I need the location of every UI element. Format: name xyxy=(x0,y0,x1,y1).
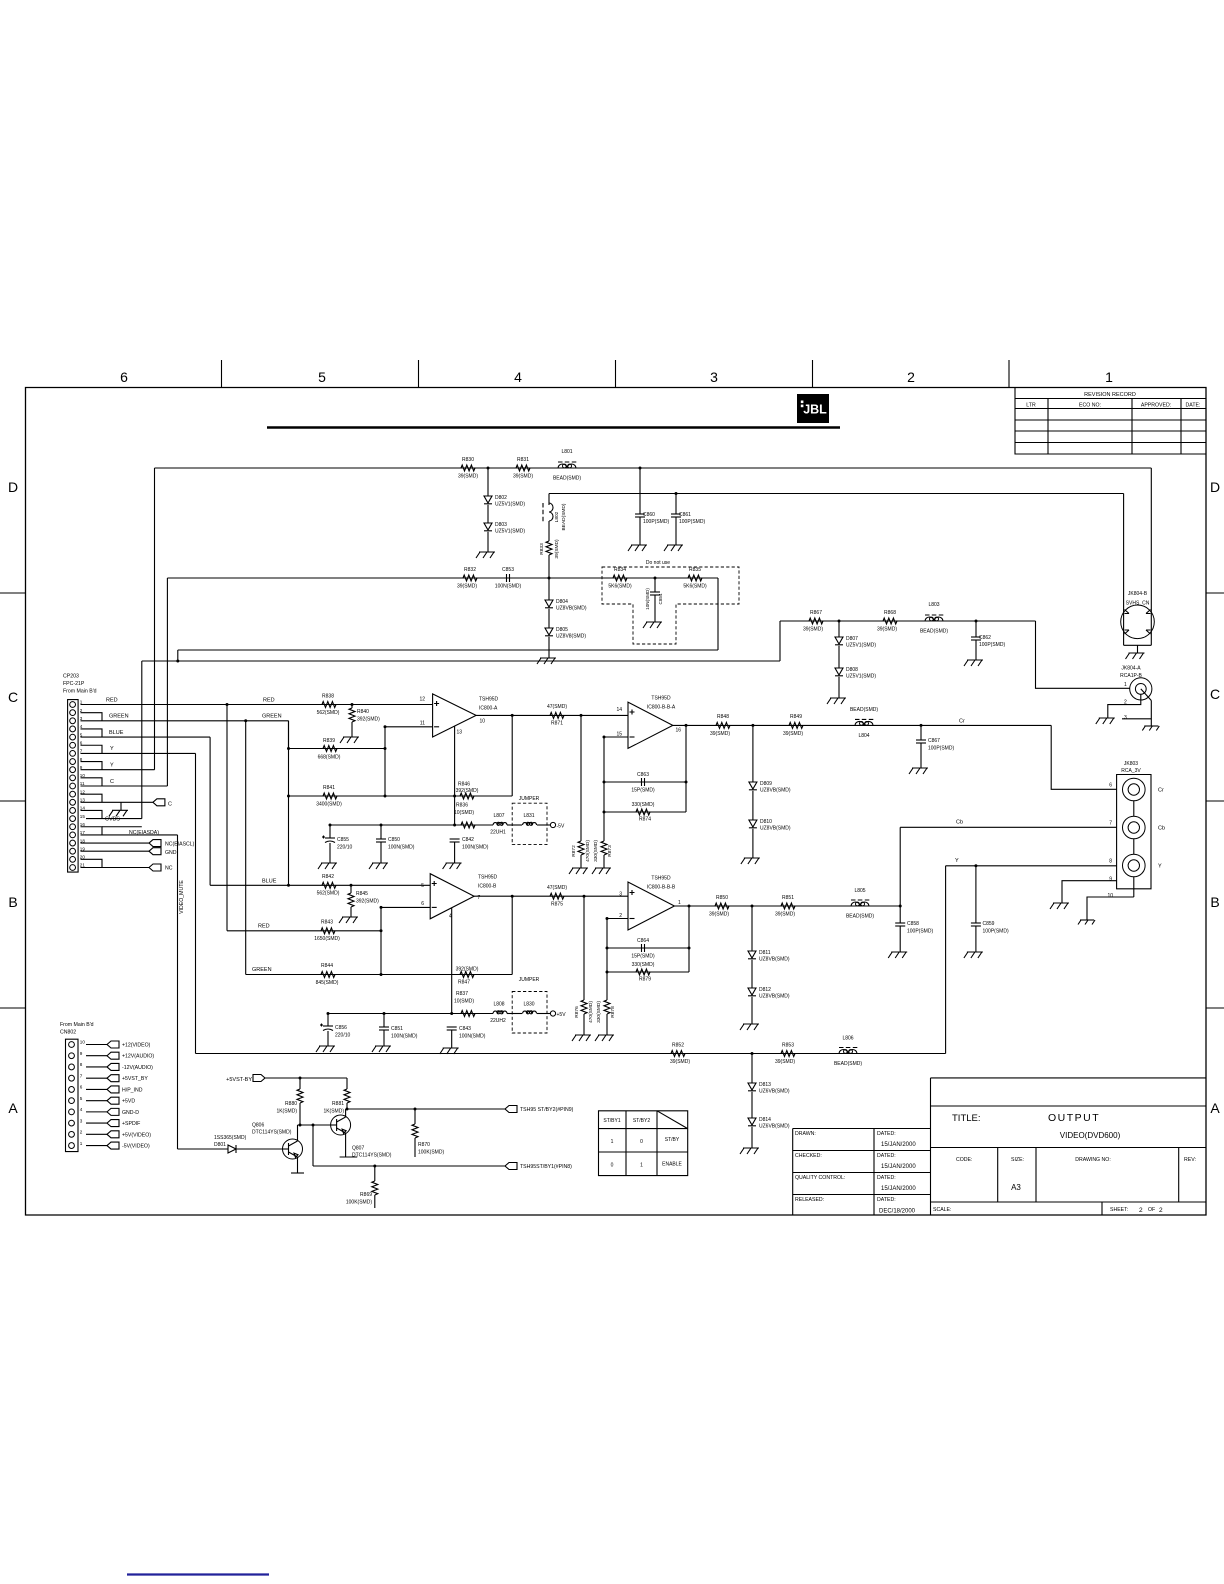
svg-text:R879: R879 xyxy=(639,977,651,983)
diode D807 xyxy=(838,621,840,637)
svg-text:TSH95D: TSH95D xyxy=(478,875,498,881)
resistor R836 xyxy=(461,822,475,828)
svg-text:ST/BY2: ST/BY2 xyxy=(633,1118,650,1124)
svg-text:R835: R835 xyxy=(689,567,701,573)
svg-text:R850: R850 xyxy=(716,895,728,901)
capacitor C843 xyxy=(447,1026,457,1028)
svg-text:10N(SMD): 10N(SMD) xyxy=(645,588,650,610)
ground R840 xyxy=(340,737,359,743)
svg-text:15/JAN/2000: 15/JAN/2000 xyxy=(881,1186,916,1192)
svg-text:SCALE:: SCALE: xyxy=(933,1207,951,1213)
svg-text:39(SMD): 39(SMD) xyxy=(457,584,477,590)
svg-text:DTC114YS(SMD): DTC114YS(SMD) xyxy=(352,1153,392,1159)
svg-text:9: 9 xyxy=(1109,877,1112,883)
svg-text:R841: R841 xyxy=(323,785,335,791)
capacitor C850 xyxy=(380,825,382,839)
svg-text:5K6(SMD): 5K6(SMD) xyxy=(608,584,632,590)
node R876 xyxy=(583,895,586,898)
svg-text:C867: C867 xyxy=(928,738,940,744)
svg-text:A: A xyxy=(8,1100,18,1116)
svg-text:39(SMD): 39(SMD) xyxy=(803,627,823,633)
diode D811 xyxy=(751,906,753,951)
JK803 inter-circle links xyxy=(1133,801,1135,816)
svg-text:DATE:: DATE: xyxy=(1186,403,1201,409)
svg-text:R868: R868 xyxy=(884,610,896,616)
svg-text:R880: R880 xyxy=(285,1101,297,1107)
svg-text:5K6(SMD): 5K6(SMD) xyxy=(683,584,707,590)
wire minus input IC800-B xyxy=(381,906,430,908)
resistor R846 xyxy=(460,793,474,799)
svg-text:D808: D808 xyxy=(846,667,858,673)
svg-text:C854: C854 xyxy=(658,593,663,604)
svg-text:BEAD(SMD): BEAD(SMD) xyxy=(846,914,874,920)
transistor Q807 xyxy=(331,1115,351,1135)
svg-text:DATED:: DATED: xyxy=(877,1175,896,1181)
svg-text:C850: C850 xyxy=(388,837,400,843)
wire bus x=177.8 short link xyxy=(177,650,179,661)
svg-text:UZ8VB(SMD): UZ8VB(SMD) xyxy=(759,957,790,963)
wire A y=650 xyxy=(178,649,718,651)
node R872 xyxy=(580,714,583,717)
capacitor C862 xyxy=(975,621,977,637)
capacitor C864 xyxy=(641,944,643,952)
svg-text:UZ8V8(SMD): UZ8V8(SMD) xyxy=(556,634,586,640)
wire Y bottom run y=1053.5 xyxy=(196,1053,946,1055)
wire bus x=167.4 C to R832 wire xyxy=(166,578,168,786)
wire B y=661 CVBS run xyxy=(142,660,780,662)
svg-text:C843: C843 xyxy=(459,1026,471,1032)
svg-text:REV:: REV: xyxy=(1184,1157,1196,1163)
wire feedback vertical x=689 xyxy=(688,906,690,972)
svg-text:0: 0 xyxy=(640,1139,643,1145)
svg-text:17: 17 xyxy=(80,830,86,835)
svg-text:39(SMD): 39(SMD) xyxy=(709,912,729,918)
svg-text:DRAWING NO:: DRAWING NO: xyxy=(1075,1157,1111,1163)
svg-text:1: 1 xyxy=(678,900,681,906)
svg-text:845(SMD): 845(SMD) xyxy=(316,980,339,986)
ground C851 xyxy=(383,1030,385,1046)
svg-text:D: D xyxy=(1210,479,1220,495)
svg-text:C: C xyxy=(110,779,114,785)
resistor R842 xyxy=(322,882,336,888)
svg-text:IC800-A: IC800-A xyxy=(479,706,498,712)
svg-text:3: 3 xyxy=(1124,715,1127,721)
wire output node down xyxy=(511,715,513,796)
svg-text:6: 6 xyxy=(1109,783,1112,789)
svg-text:5: 5 xyxy=(318,369,326,385)
svg-text:From Main B'd: From Main B'd xyxy=(60,1022,94,1028)
wire bias row y=1013.5 xyxy=(328,1013,493,1015)
svg-text:10: 10 xyxy=(480,719,486,725)
wire bus x=154.5 Y to top wire xyxy=(154,468,156,770)
node C854 xyxy=(654,577,657,580)
svg-text:C863: C863 xyxy=(637,772,649,778)
svg-text:R853: R853 xyxy=(782,1043,794,1049)
svg-text:330(SMD): 330(SMD) xyxy=(632,802,655,808)
svg-text:C861: C861 xyxy=(679,512,691,518)
svg-text:R869: R869 xyxy=(360,1192,372,1198)
wire IC800-A output row xyxy=(476,714,628,716)
diode D809 xyxy=(752,725,754,782)
CN802 pin 4 flag GND-D xyxy=(86,1111,107,1113)
svg-text:UZ5V1(SMD): UZ5V1(SMD) xyxy=(495,529,525,535)
svg-text:BEAD(SMD): BEAD(SMD) xyxy=(553,476,581,482)
wire Cb row to jack xyxy=(900,826,1116,828)
resistor R874 xyxy=(636,809,650,815)
wire bus x=141.8 CVBS to wire-B xyxy=(141,661,143,819)
svg-text:39(SMD): 39(SMD) xyxy=(513,474,533,480)
svg-text:+12(VIDEO): +12(VIDEO) xyxy=(122,1043,151,1049)
svg-text:15/JAN/2000: 15/JAN/2000 xyxy=(881,1164,916,1170)
svg-text:16: 16 xyxy=(676,728,682,734)
resistor R850 xyxy=(715,903,729,909)
diode D813 xyxy=(751,1054,753,1084)
capacitor C853 series xyxy=(506,574,508,582)
svg-text:22UH2: 22UH2 xyxy=(490,1018,506,1024)
node D813 xyxy=(751,1052,754,1055)
resistor R881 vertical xyxy=(346,1078,348,1089)
wire NC(EIASDA) pin17 row -> VIDEO_MUTE xyxy=(81,834,178,836)
svg-text:R842: R842 xyxy=(322,874,334,880)
svg-text:4: 4 xyxy=(514,369,522,385)
bead L803 xyxy=(925,614,943,616)
ground D803 xyxy=(487,532,489,552)
svg-text:1: 1 xyxy=(80,1141,83,1146)
svg-text:NC(EIASDA): NC(EIASDA) xyxy=(129,830,159,836)
svg-text:R831: R831 xyxy=(517,457,529,463)
svg-text:330(SMD): 330(SMD) xyxy=(593,840,599,862)
diode D802 xyxy=(487,468,489,496)
svg-text:RED: RED xyxy=(263,698,275,704)
diode D810 xyxy=(752,791,754,820)
wire feedback row y=796 xyxy=(289,795,513,797)
svg-text:RED: RED xyxy=(258,924,270,930)
resistor R849 xyxy=(789,722,803,728)
bead L801 xyxy=(558,461,576,463)
jumper box L831 xyxy=(512,803,547,844)
op-amp U4 IC800-B-B-B xyxy=(628,882,674,930)
resistor R869 vertical xyxy=(374,1166,376,1181)
inductor L807 xyxy=(493,823,507,825)
ground R878 xyxy=(595,1035,614,1041)
svg-text:R840: R840 xyxy=(357,709,369,715)
svg-text:10: 10 xyxy=(1107,893,1113,899)
svg-text:D811: D811 xyxy=(759,950,771,956)
wire BLUE pin5 row xyxy=(81,736,211,738)
svg-text:L804: L804 xyxy=(858,733,869,739)
CN802 pin 7 flag +5VST_BY xyxy=(86,1077,107,1079)
resistor R875 xyxy=(550,893,564,899)
svg-text:15P(SMD): 15P(SMD) xyxy=(631,788,655,794)
capacitor C842 xyxy=(450,838,460,840)
node R830/R831 xyxy=(487,467,490,470)
svg-text:Y: Y xyxy=(1158,864,1162,870)
svg-text:Y: Y xyxy=(955,858,959,864)
svg-text:39(SMD): 39(SMD) xyxy=(783,731,803,737)
flag NC(EIASCL) pin18 xyxy=(81,842,150,844)
resistor R834 xyxy=(613,575,627,581)
svg-text:Cr: Cr xyxy=(959,719,965,725)
svg-text:100P(SMD): 100P(SMD) xyxy=(979,642,1005,648)
svg-text:4: 4 xyxy=(80,1107,83,1112)
row ticks right xyxy=(1206,592,1224,594)
Q807 collector link xyxy=(345,1109,347,1115)
svg-text:1: 1 xyxy=(1105,369,1113,385)
resistor R872 vertical xyxy=(580,715,582,841)
svg-text:3: 3 xyxy=(710,369,718,385)
svg-text:TSH95 ST/BY2(#PIN9): TSH95 ST/BY2(#PIN9) xyxy=(520,1107,574,1113)
svg-text:R871: R871 xyxy=(551,721,563,727)
svg-text:GREEN: GREEN xyxy=(262,714,282,720)
svg-text:-12V(AUDIO): -12V(AUDIO) xyxy=(122,1065,153,1071)
svg-text:C851: C851 xyxy=(391,1026,403,1032)
capacitor C851 xyxy=(383,1014,385,1028)
svg-text:R839: R839 xyxy=(323,738,335,744)
ground C867 xyxy=(920,743,922,768)
svg-text:100P(SMD): 100P(SMD) xyxy=(928,746,954,752)
resistor R844 xyxy=(321,972,335,978)
resistor R851 xyxy=(781,903,795,909)
svg-text:1SS365(SMD): 1SS365(SMD) xyxy=(214,1135,247,1141)
svg-text:8: 8 xyxy=(80,1062,83,1067)
svg-text:9: 9 xyxy=(80,1051,83,1056)
svg-text:Cb: Cb xyxy=(1158,826,1165,832)
bead L802 vertical xyxy=(548,494,550,506)
footer blue line xyxy=(127,1573,269,1575)
svg-text:R836: R836 xyxy=(456,803,468,809)
svg-text:39(SMD): 39(SMD) xyxy=(554,539,560,559)
wire feedback C863 row xyxy=(604,781,686,783)
svg-text:+5VST-BY: +5VST-BY xyxy=(226,1077,252,1083)
jumper box L830 xyxy=(512,992,547,1034)
svg-text:UZ8VB(SMD): UZ8VB(SMD) xyxy=(760,788,791,794)
CN802 pin 2 flag +5V(VIDEO) xyxy=(86,1133,107,1135)
svg-text:6: 6 xyxy=(120,369,128,385)
svg-text:2: 2 xyxy=(1159,1207,1163,1214)
svg-text:L808: L808 xyxy=(493,1002,504,1008)
resistor R868 xyxy=(883,618,897,624)
svg-text:Do not use: Do not use xyxy=(646,560,670,566)
svg-text:+5VD: +5VD xyxy=(122,1099,135,1105)
resistor R832 xyxy=(463,575,477,581)
resistor R831 xyxy=(516,465,530,471)
svg-text:330(SMD): 330(SMD) xyxy=(632,962,655,968)
diode D805 xyxy=(548,609,550,628)
svg-text:5: 5 xyxy=(421,883,424,889)
wire feedback R874 row xyxy=(604,811,686,813)
svg-text:12: 12 xyxy=(80,789,86,794)
ground C855 xyxy=(329,843,331,863)
svg-text:1K(SMD): 1K(SMD) xyxy=(323,1109,344,1115)
svg-text:+12V(AUDIO): +12V(AUDIO) xyxy=(122,1054,154,1060)
wire C pin11 row xyxy=(81,785,168,787)
svg-text:RED: RED xyxy=(106,698,118,704)
resistor R878 vertical xyxy=(604,1000,610,1014)
wire Y vertical x=945.6 xyxy=(945,866,947,1054)
svg-text:R849: R849 xyxy=(790,714,802,720)
wire minus input IC800-B-B-B xyxy=(607,918,628,920)
svg-text:R834: R834 xyxy=(614,567,626,573)
svg-text:2: 2 xyxy=(80,1130,83,1135)
wire pin4 stub xyxy=(451,908,453,1014)
node C862 xyxy=(975,620,978,623)
svg-text:392(SMD): 392(SMD) xyxy=(456,788,479,794)
svg-text:R851: R851 xyxy=(782,895,794,901)
inductor L830 xyxy=(507,1013,522,1015)
capacitor C861 xyxy=(675,494,677,515)
node C859 xyxy=(974,864,977,867)
resistor R870 vertical xyxy=(414,1109,416,1124)
wire bus x=227 RED to R843 row xyxy=(226,705,228,931)
svg-text:7: 7 xyxy=(1109,821,1112,827)
svg-text:IC800-B: IC800-B xyxy=(478,884,497,890)
svg-text:Q807: Q807 xyxy=(352,1146,364,1152)
svg-text:100P(SMD): 100P(SMD) xyxy=(679,519,705,525)
svg-text:R832: R832 xyxy=(464,567,476,573)
svg-text:D809: D809 xyxy=(760,781,772,787)
svg-text:R844: R844 xyxy=(321,963,333,969)
svg-text:UZ5V1(SMD): UZ5V1(SMD) xyxy=(846,674,876,680)
svg-text:D805: D805 xyxy=(556,627,568,633)
wire minus input IC800-A xyxy=(385,726,433,728)
svg-text:1: 1 xyxy=(640,1163,643,1169)
CN802 pin 8 flag -12V(AUDIO) xyxy=(86,1066,107,1068)
CN802 pin 1 flag -5V(VIDEO) xyxy=(86,1145,107,1147)
wire feedback row y=974.5 xyxy=(246,974,513,976)
thick underline xyxy=(267,426,840,429)
svg-text:APPROVED:: APPROVED: xyxy=(1141,403,1171,409)
resistor R841 xyxy=(323,793,337,799)
svg-text:R876: R876 xyxy=(574,1006,580,1018)
wire bus x=210.1 BLUE to R842 row xyxy=(209,737,211,885)
ground pin14 xyxy=(120,802,122,810)
svg-text:R846: R846 xyxy=(458,782,470,788)
wire output node down IC800-B xyxy=(511,896,513,974)
svg-text:C: C xyxy=(168,802,172,808)
diode D814 xyxy=(751,1092,753,1118)
op-amp U3 IC800-B-B-A xyxy=(628,702,673,748)
svg-text:C: C xyxy=(1210,686,1220,702)
svg-text:1K(SMD): 1K(SMD) xyxy=(276,1109,297,1115)
resistor R852 xyxy=(671,1051,685,1057)
svg-text:0: 0 xyxy=(611,1163,614,1169)
Q807 emitter bar xyxy=(345,1135,347,1157)
wire feedback C864 row xyxy=(607,947,689,949)
svg-text:JBL: JBL xyxy=(803,403,827,417)
svg-text:TITLE:: TITLE: xyxy=(952,1113,981,1124)
wire top second line y=493.5 xyxy=(549,493,1124,495)
svg-text:JK803: JK803 xyxy=(1124,761,1138,767)
flag GND pin19 xyxy=(81,850,150,852)
ground C862 xyxy=(975,640,977,660)
resistor R847 xyxy=(460,972,474,978)
terminal -5V xyxy=(537,824,551,826)
svg-text:R830: R830 xyxy=(462,457,474,463)
capacitor C860 xyxy=(639,468,641,514)
row ticks left xyxy=(0,592,26,594)
resistor R848 xyxy=(716,722,730,728)
svg-text:39(SMD): 39(SMD) xyxy=(775,1059,795,1065)
wire GREEN pin3 row xyxy=(81,720,289,722)
resistor R840 xyxy=(351,705,353,709)
svg-text:330(SMD): 330(SMD) xyxy=(596,1001,602,1023)
wire C pin13 row with flag xyxy=(81,801,153,803)
node C860 xyxy=(639,467,642,470)
CN802 pin 9 flag +12V(AUDIO) xyxy=(86,1055,107,1057)
svg-text:R870: R870 xyxy=(418,1142,430,1148)
standby truth table xyxy=(599,1111,688,1176)
svg-text:100N(SMD): 100N(SMD) xyxy=(462,845,489,851)
svg-text:C862: C862 xyxy=(979,635,991,641)
resistor R867 xyxy=(809,618,823,624)
svg-text:100N(SMD): 100N(SMD) xyxy=(391,1034,418,1040)
resistor R880 vertical xyxy=(299,1078,301,1089)
border frame xyxy=(26,388,1207,1216)
svg-text:C856: C856 xyxy=(335,1025,347,1031)
svg-text:C855: C855 xyxy=(337,837,349,843)
node D811 xyxy=(751,905,754,908)
svg-text:15: 15 xyxy=(80,814,86,819)
svg-text:UZ8VB(SMD): UZ8VB(SMD) xyxy=(556,606,587,612)
svg-text:+5V(VIDEO): +5V(VIDEO) xyxy=(122,1132,151,1138)
svg-text:100N(SMD): 100N(SMD) xyxy=(388,845,415,851)
flag TSH95 ST/BY2 xyxy=(505,1106,517,1113)
svg-text:2: 2 xyxy=(1139,1207,1143,1214)
transistor Q806 xyxy=(297,1125,299,1139)
svg-text:B: B xyxy=(1210,894,1219,910)
svg-text:39(SMD): 39(SMD) xyxy=(710,731,730,737)
svg-text:IC800-B-B-A: IC800-B-B-A xyxy=(647,705,676,711)
wire bus x=195.5 Y1 to bottom Y line xyxy=(195,753,197,1053)
svg-text:BLUE: BLUE xyxy=(262,879,277,885)
svg-text:UZ6VB(SMD): UZ6VB(SMD) xyxy=(759,1124,790,1130)
wire ST/BY1 row xyxy=(312,1125,314,1166)
op-amp U1 IC800-A xyxy=(433,694,477,737)
svg-text:5: 5 xyxy=(80,1096,83,1101)
svg-text:47(SMD): 47(SMD) xyxy=(547,704,567,710)
wire RED2 row R843 xyxy=(227,930,381,932)
CN802 pin 3 flag +SPDIF xyxy=(86,1122,107,1124)
svg-text:CVBS: CVBS xyxy=(105,817,120,823)
svg-text:562(SMD): 562(SMD) xyxy=(317,891,340,897)
svg-text:R833: R833 xyxy=(539,543,545,555)
svg-text:JK804-B: JK804-B xyxy=(1128,591,1148,597)
svg-text:UZ8VB(SMD): UZ8VB(SMD) xyxy=(759,994,790,1000)
svg-text:LTR: LTR xyxy=(1026,403,1036,409)
wire bias row y=825 xyxy=(330,824,493,826)
svg-text:SVHS_CN: SVHS_CN xyxy=(1126,601,1150,607)
ground C842 xyxy=(454,842,456,863)
svg-text:Y: Y xyxy=(110,763,114,769)
wire composite to RCA jack xyxy=(1036,621,1130,688)
svg-text:DATED:: DATED: xyxy=(877,1153,896,1159)
inductor L808 xyxy=(493,1011,507,1013)
svg-text:FPC-21P: FPC-21P xyxy=(63,681,85,687)
svg-text:DATED:: DATED: xyxy=(877,1197,896,1203)
svg-text:+SPDIF: +SPDIF xyxy=(122,1121,140,1127)
svg-text:R878: R878 xyxy=(610,1006,616,1018)
svg-text:2: 2 xyxy=(80,708,83,713)
svg-text:SIZE:: SIZE: xyxy=(1011,1157,1024,1163)
svg-text:UZ8VB(SMD): UZ8VB(SMD) xyxy=(760,826,791,832)
svg-text:TSH95D: TSH95D xyxy=(651,696,671,702)
resistor R873 vertical xyxy=(601,841,607,855)
svg-text:C864: C864 xyxy=(637,938,649,944)
svg-text:GREEN: GREEN xyxy=(252,967,272,973)
svg-text:TSH95ST/BY1(#PIN8): TSH95ST/BY1(#PIN8) xyxy=(520,1164,572,1170)
svg-text:D813: D813 xyxy=(759,1082,771,1088)
svg-text:-5V: -5V xyxy=(557,824,565,830)
